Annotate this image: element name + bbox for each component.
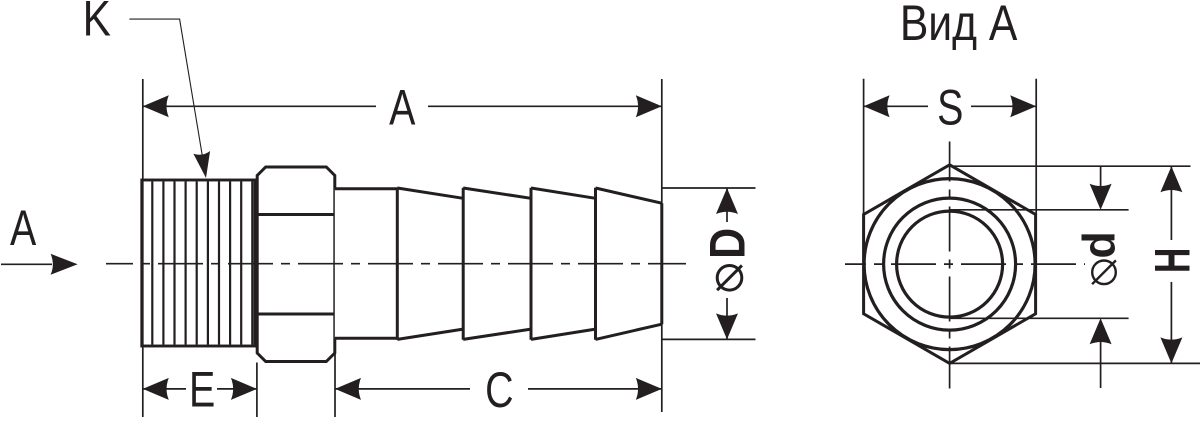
hex flat line lower <box>257 313 335 316</box>
extension line left (A/E) <box>142 79 144 417</box>
arrowhead S right <box>1010 95 1036 117</box>
dimension line D <box>726 188 728 339</box>
diameter symbol for D <box>717 266 742 291</box>
extension line D top <box>662 187 756 189</box>
arrowhead H up <box>1160 166 1182 192</box>
arrowhead E right <box>231 378 257 400</box>
svg-text:K: K <box>83 0 111 47</box>
extension line S left <box>863 79 865 215</box>
K leader line <box>129 19 203 163</box>
hex flat line upper <box>257 213 335 216</box>
barb top slopes <box>397 188 662 203</box>
barb boundary verticals <box>397 188 595 340</box>
cylinder top edge <box>335 187 398 190</box>
dimension line d bottom tail <box>1100 342 1102 388</box>
extension line C left <box>334 340 336 417</box>
extension line S right <box>1035 79 1037 215</box>
extension line H top <box>950 165 1191 167</box>
dimension line d top tail <box>1100 166 1102 186</box>
dimension line C <box>335 388 662 390</box>
dimension line H <box>1170 166 1172 363</box>
arrowhead A right <box>636 95 662 117</box>
arrowhead D up <box>716 188 738 214</box>
svg-text:H: H <box>1145 248 1200 274</box>
svg-text:C: C <box>485 361 513 418</box>
extension line d bottom <box>950 317 1129 319</box>
svg-text:Вид А: Вид А <box>900 0 1018 51</box>
barb right end edge <box>660 203 663 324</box>
view direction arrowhead <box>51 254 78 275</box>
arrowhead C left <box>335 378 361 400</box>
extension line d top <box>950 209 1129 211</box>
svg-text:E: E <box>189 361 215 418</box>
diameter symbol for d <box>1092 261 1116 285</box>
arrowhead d down <box>1090 184 1112 210</box>
extension line H bottom <box>950 362 1200 364</box>
dimension line E <box>143 388 257 390</box>
outer chamfer circle <box>864 179 1035 350</box>
arrowhead d up <box>1090 318 1112 344</box>
svg-text:d: d <box>1073 231 1125 258</box>
inner bore circle <box>897 211 1003 317</box>
middle circle <box>884 198 1016 330</box>
view direction arrow line <box>1 263 52 265</box>
arrowhead E left <box>143 378 169 400</box>
arrowhead S left <box>864 95 890 117</box>
hex nut face <box>864 165 1036 364</box>
K leader arrowhead <box>193 151 210 178</box>
arrowhead C right <box>636 378 662 400</box>
svg-text:S: S <box>937 79 963 136</box>
arrowhead D down <box>716 313 738 339</box>
arrowhead H down <box>1160 337 1182 363</box>
cylinder bottom edge <box>335 337 398 340</box>
dimension line A <box>143 105 662 107</box>
centerline left view <box>106 263 686 265</box>
barb body fill <box>335 188 662 339</box>
centerline horizontal right view <box>845 263 1085 265</box>
svg-text:D: D <box>699 228 755 259</box>
extension line D bottom <box>662 338 756 340</box>
extension line right (A/C) <box>661 79 663 412</box>
dimension line S <box>864 105 1037 107</box>
hex section <box>257 167 335 362</box>
thread section outline <box>142 180 255 346</box>
barb bottom slopes <box>397 324 662 339</box>
thread lines <box>152 182 252 345</box>
svg-text:A: A <box>10 199 37 256</box>
arrowhead A left <box>143 95 169 117</box>
extension line E right <box>256 363 258 418</box>
svg-text:A: A <box>389 79 416 136</box>
centerline vertical right view <box>949 142 951 389</box>
